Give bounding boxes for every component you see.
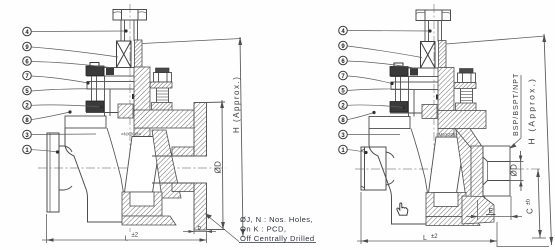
stem nut pin (dark square) left valve (132, 94, 138, 99)
centerline horizontal (right valve pipe axis) (355, 168, 541, 170)
gland stud upper nut (dark) left valve (86, 63, 104, 76)
hex head right valve (416, 10, 451, 21)
dimension E (right valve) (466, 196, 522, 220)
bore walls (left valve) (152, 156, 194, 183)
svg-text:L: L (423, 235, 427, 242)
svg-text:L: L (125, 236, 129, 243)
bonnet stud right, threaded (left valve) (157, 88, 169, 103)
right flange sectioned upper (left valve) (194, 103, 207, 157)
dimension OD left valve (207, 100, 225, 230)
svg-text:ØD: ØD (214, 161, 223, 174)
svg-text:Off Centrally Drilled: Off Centrally Drilled (240, 234, 315, 243)
dimension L ±2 (right valve) (357, 192, 549, 247)
right hub web bottom band (left valve) (172, 183, 194, 192)
bonnet wall right valve (390, 77, 422, 117)
body bottom-right corner hatched (right valve) (462, 196, 494, 224)
column continuation to plug (right valve) (438, 129, 454, 138)
body flange hatched block right (left valve) (152, 103, 173, 116)
bonnet bolt right: hex nut right valve (458, 73, 476, 83)
bonnet base plate outline (left valve) (65, 116, 106, 128)
svg-text:ØD: ØD (510, 164, 519, 177)
svg-text:H (Approx.): H (Approx.) (527, 77, 537, 145)
socket boss outside view (right valve) (483, 146, 510, 196)
left screwed socket (outside view, right valve) (361, 147, 386, 190)
note leader arrow to flange (left valve) (206, 215, 239, 242)
right flange sectioned lower (left valve) (194, 183, 207, 230)
left hub lines (left valve) (59, 146, 72, 190)
note text block (left valve) (240, 215, 315, 243)
right hub web top band (left valve) (172, 147, 194, 156)
centerline horizontal (left valve pipe axis) (38, 167, 226, 169)
plug (white trapezoid) outline (right valve) (428, 137, 465, 197)
svg-text:±b: ±b (526, 199, 532, 205)
gland plate left valve (87, 68, 146, 77)
packing X-box right valve (421, 42, 436, 69)
seat ring U hatched (left valve) (122, 192, 162, 216)
svg-text:±2: ±2 (431, 234, 438, 240)
plug (white trapezoid) outline (left valve) (124, 137, 161, 197)
hand cursor (screenshot artifact) (397, 203, 408, 215)
H dimension top extension line (right) (446, 36, 545, 44)
dimension C±b (right valve) (538, 169, 540, 238)
dimension OD (right valve, bore) (511, 151, 524, 191)
svg-text:C: C (526, 208, 535, 214)
centerline vertical (left valve stem axis) (129, 4, 131, 232)
body right shoulder slope hatched (right valve) (455, 129, 483, 149)
svg-text:≡NX30Ø≡: ≡NX30Ø≡ (121, 132, 141, 137)
leader dots (right valve) (364, 29, 431, 154)
svg-text:H (Approx.): H (Approx.) (232, 76, 241, 133)
RIGHT VALVE leader lines (347, 31, 430, 153)
gland plate right valve (391, 68, 450, 77)
gland stud upper nut (dark) right valve (390, 63, 408, 76)
bonnet flange hatched band under right nut (left valve) (150, 82, 172, 88)
stem right valve (425, 21, 442, 42)
svg-text:≡M6X2Ø≡: ≡M6X2Ø≡ (436, 132, 457, 137)
body shoulder hatched band (right valve) (438, 111, 486, 129)
seat ring U hatched (right valve) (426, 193, 466, 217)
body bottom band (left valve) (122, 216, 176, 225)
body right wall slanted hatched (right valve) (456, 131, 485, 199)
bonnet flange left hatched bit (right valve) (422, 105, 437, 119)
body flange hatched block right (right valve) (456, 103, 477, 116)
leader dots (left valve) (56, 29, 128, 153)
bonnet lower nut (dark) left valve (86, 101, 104, 112)
hatched gland bush right of X-box (135, 40, 143, 68)
svg-text:E: E (489, 208, 494, 215)
svg-text:ØJ, N : Nos. Holes,: ØJ, N : Nos. Holes, (240, 215, 313, 224)
body right wall slanted hatched (left valve) (152, 130, 181, 198)
bonnet bolt right: hex nut left valve (154, 73, 172, 83)
body bottom band (right valve) (426, 217, 480, 226)
left flange (outside view, left valve) (47, 133, 59, 212)
body shoulder hatched band (left valve) (134, 110, 196, 128)
bonnet flange left hatched bit (left valve) (118, 104, 133, 118)
stem left valve (121, 20, 138, 41)
central body neck column, sectioned (right valve) (438, 68, 454, 113)
body waist outline, outside view (right valve) (369, 129, 439, 225)
svg-text:±2: ±2 (132, 233, 139, 239)
LEFT VALVE leader lines (31, 31, 126, 152)
gland eye (dark) left valve (106, 68, 114, 75)
bonnet lower nut (dark) right valve (390, 102, 408, 113)
bonnet wall left valve (86, 76, 118, 116)
svg-text:BSP/BSPT/NPT: BSP/BSPT/NPT (513, 73, 520, 136)
bonnet flange hatched band under right nut (right valve) (454, 83, 476, 89)
svg-text:On K : PCD,: On K : PCD, (240, 225, 286, 234)
gland eye (dark) right valve (410, 69, 418, 76)
hatched gland bush right valve (439, 41, 447, 69)
hex head (handwheel nut) left valve (113, 10, 147, 21)
bonnet stud right, threaded (right valve) (461, 89, 473, 104)
body waist outline, outside view (left valve) (65, 128, 135, 222)
H dimension top extension line (left) (142, 39, 241, 44)
bonnet base plate outline (right valve) (369, 117, 410, 129)
dimension L ±2 left valve (42, 214, 207, 243)
dimension H (Approx.) left valve (240, 37, 243, 237)
central body neck column, sectioned (left valve) (134, 67, 150, 112)
yoke bar right valve (391, 82, 450, 90)
packing X-box left valve (117, 41, 132, 68)
dimension b left valve (183, 226, 216, 234)
yoke bar left valve (87, 82, 146, 90)
centerline vertical (right valve stem axis) (433, 4, 435, 228)
socket rear collar hatched (right valve) (471, 146, 483, 198)
gland stud right valve (396, 77, 401, 102)
column continuation to plug (left valve) (134, 128, 150, 137)
dimension H (Approx.) right valve (544, 34, 552, 245)
gland stud left valve (92, 76, 97, 101)
hub lines left socket (right valve) (386, 152, 394, 185)
stem nut pin (dark square) right valve (436, 95, 442, 100)
